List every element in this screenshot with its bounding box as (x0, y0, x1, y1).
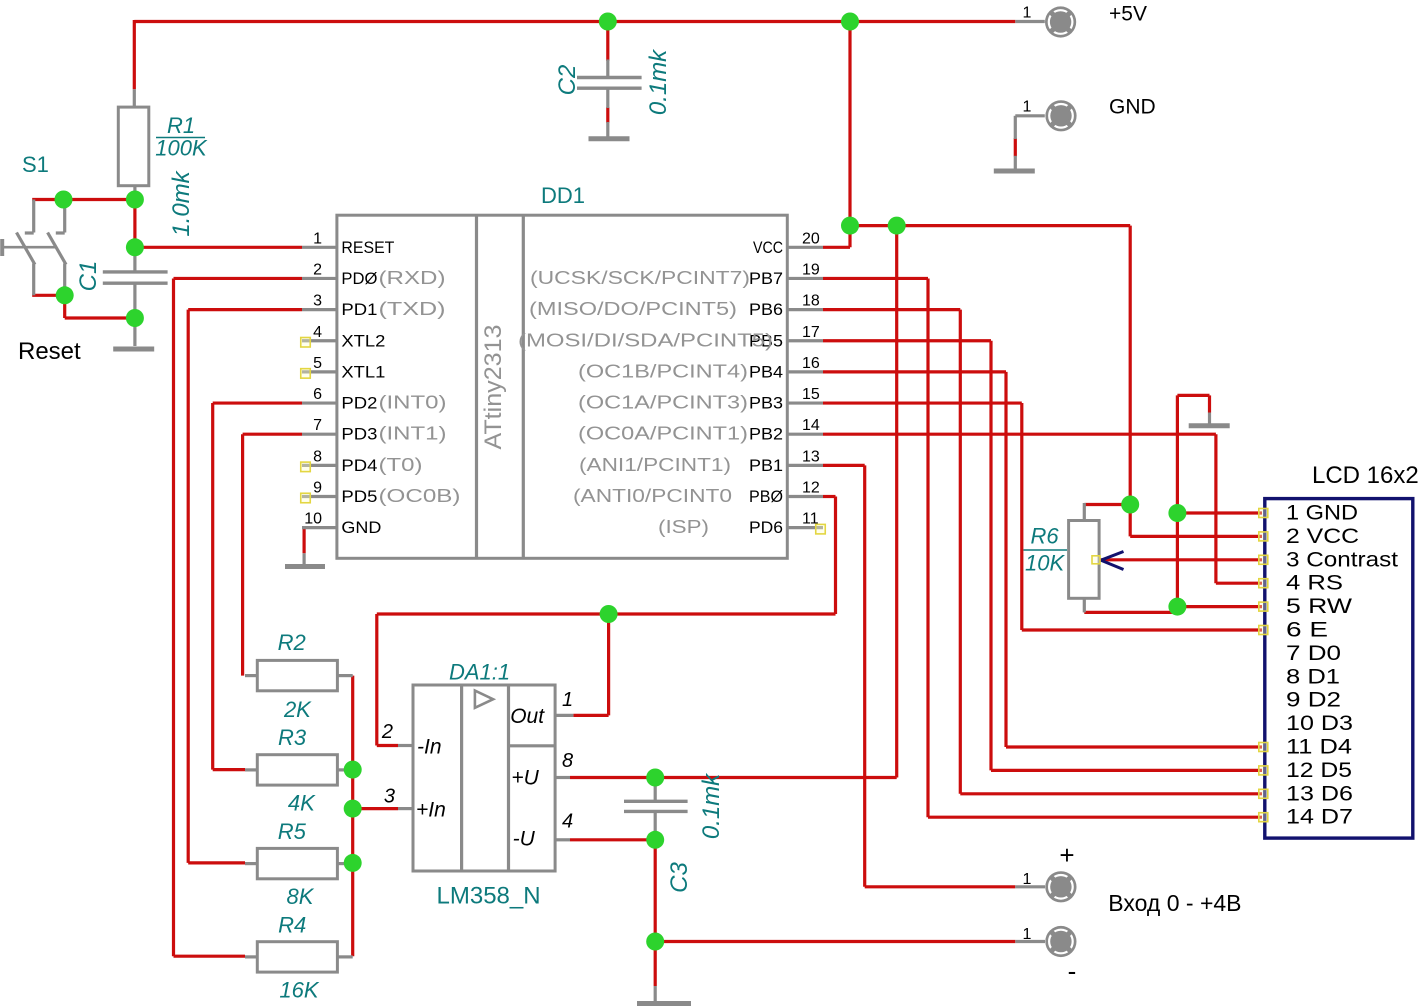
svg-text:2: 2 (313, 261, 322, 278)
svg-text:6: 6 (313, 386, 322, 403)
svg-text:-In: -In (417, 736, 442, 759)
svg-text:12 D5: 12 D5 (1286, 759, 1352, 782)
svg-text:10 D3: 10 D3 (1286, 712, 1353, 735)
svg-text:S1: S1 (22, 152, 49, 177)
svg-text:(TXD): (TXD) (379, 299, 446, 319)
svg-text:(MOSI/DI/SDA/PCINT5): (MOSI/DI/SDA/PCINT5) (518, 330, 773, 350)
svg-text:PB6: PB6 (749, 300, 783, 319)
svg-text:-U: -U (513, 828, 536, 851)
svg-text:13 D6: 13 D6 (1286, 782, 1353, 805)
svg-text:8: 8 (313, 448, 322, 465)
svg-text:PB1: PB1 (749, 456, 783, 475)
svg-text:GND: GND (341, 518, 381, 537)
svg-text:19: 19 (802, 261, 820, 278)
svg-text:0.1mk: 0.1mk (645, 48, 672, 115)
svg-text:PB3: PB3 (749, 394, 783, 413)
svg-text:XTL2: XTL2 (341, 331, 385, 350)
svg-text:PD2: PD2 (341, 394, 377, 413)
svg-text:C2: C2 (554, 65, 581, 96)
svg-text:1: 1 (1023, 99, 1032, 116)
svg-text:+In: +In (416, 799, 446, 822)
svg-text:7: 7 (313, 417, 322, 434)
svg-text:R4: R4 (278, 913, 306, 938)
svg-text:4: 4 (562, 811, 573, 833)
svg-text:PB4: PB4 (749, 362, 783, 381)
svg-text:PBØ: PBØ (749, 487, 783, 506)
svg-text:1.0mk: 1.0mk (168, 169, 195, 236)
svg-text:1: 1 (1023, 5, 1032, 22)
svg-text:(OC1B/PCINT4): (OC1B/PCINT4) (578, 361, 748, 381)
svg-text:+U: +U (511, 767, 539, 790)
svg-text:2K: 2K (283, 697, 312, 722)
svg-text:DD1: DD1 (541, 183, 585, 208)
svg-text:+5V: +5V (1109, 3, 1147, 26)
svg-text:18: 18 (802, 293, 820, 310)
svg-text:(INT0): (INT0) (379, 393, 447, 413)
svg-text:PB7: PB7 (749, 269, 783, 288)
svg-text:R3: R3 (278, 725, 307, 750)
svg-text:1: 1 (1023, 926, 1032, 943)
svg-text:R5: R5 (278, 819, 307, 844)
svg-text:9: 9 (313, 480, 322, 497)
svg-text:17: 17 (802, 324, 820, 341)
svg-text:(INT1): (INT1) (379, 424, 447, 444)
svg-text:2: 2 (381, 721, 393, 743)
svg-text:16K: 16K (279, 978, 319, 1003)
svg-text:3: 3 (313, 293, 322, 310)
svg-text:1: 1 (1023, 871, 1032, 888)
svg-text:7 D0: 7 D0 (1286, 642, 1341, 665)
svg-text:VCC: VCC (753, 238, 783, 257)
svg-text:12: 12 (802, 480, 820, 497)
svg-text:R1: R1 (167, 113, 195, 138)
svg-text:4K: 4K (288, 791, 316, 816)
svg-text:14 D7: 14 D7 (1286, 806, 1353, 829)
svg-text:(RXD): (RXD) (379, 268, 446, 288)
svg-text:10K: 10K (1025, 551, 1065, 576)
svg-text:0.1mk: 0.1mk (698, 772, 725, 839)
svg-text:LM358_N: LM358_N (437, 883, 541, 910)
svg-text:2 VCC: 2 VCC (1286, 525, 1359, 548)
svg-text:(ANTI0/PCINT0: (ANTI0/PCINT0 (573, 486, 732, 506)
svg-text:6 E: 6 E (1286, 619, 1328, 642)
svg-text:4 RS: 4 RS (1286, 572, 1343, 595)
svg-text:ATtiny2313: ATtiny2313 (480, 325, 507, 450)
svg-text:8: 8 (562, 750, 573, 772)
svg-text:PD4: PD4 (341, 456, 377, 475)
svg-text:8K: 8K (287, 884, 315, 909)
svg-text:RESET: RESET (341, 238, 394, 257)
svg-text:C1: C1 (75, 261, 102, 292)
svg-text:PB2: PB2 (749, 425, 783, 444)
svg-text:(OC0A/PCINT1): (OC0A/PCINT1) (578, 424, 748, 444)
svg-text:8 D1: 8 D1 (1286, 665, 1340, 688)
svg-text:10: 10 (304, 511, 322, 528)
svg-text:20: 20 (802, 230, 820, 247)
svg-text:1: 1 (562, 689, 573, 711)
svg-text:C3: C3 (666, 862, 693, 893)
svg-text:Вход 0 - +4В: Вход 0 - +4В (1108, 890, 1241, 916)
svg-text:LCD 16x2: LCD 16x2 (1312, 462, 1419, 489)
svg-text:15: 15 (802, 386, 820, 403)
svg-text:3 Contrast: 3 Contrast (1286, 548, 1398, 571)
svg-text:-: - (1068, 956, 1077, 986)
svg-text:Reset: Reset (18, 338, 81, 365)
svg-text:R2: R2 (278, 630, 306, 655)
svg-text:+: + (1059, 840, 1074, 870)
svg-text:1: 1 (313, 230, 322, 247)
svg-text:(ANI1/PCINT1): (ANI1/PCINT1) (579, 455, 731, 475)
svg-text:GND: GND (1109, 96, 1156, 119)
svg-text:XTL1: XTL1 (341, 362, 385, 381)
svg-text:11: 11 (802, 511, 819, 528)
svg-text:(T0): (T0) (379, 455, 423, 475)
svg-text:PD3: PD3 (341, 425, 377, 444)
svg-text:3: 3 (384, 786, 395, 808)
svg-text:9 D2: 9 D2 (1286, 689, 1341, 712)
svg-text:(OC1A/PCINT3): (OC1A/PCINT3) (578, 393, 748, 413)
svg-text:100K: 100K (155, 136, 208, 161)
svg-text:5: 5 (313, 355, 322, 372)
svg-text:(ISP): (ISP) (658, 517, 709, 537)
svg-text:14: 14 (802, 417, 820, 434)
svg-text:Out: Out (510, 705, 545, 728)
svg-text:R6: R6 (1031, 524, 1060, 549)
svg-text:DA1:1: DA1:1 (449, 660, 510, 685)
svg-text:1 GND: 1 GND (1286, 502, 1358, 525)
svg-text:PD6: PD6 (749, 518, 783, 537)
svg-text:11 D4: 11 D4 (1286, 736, 1352, 759)
svg-text:PDØ: PDØ (341, 269, 377, 288)
svg-text:PD5: PD5 (341, 487, 377, 506)
svg-text:4: 4 (313, 324, 322, 341)
svg-text:13: 13 (802, 448, 820, 465)
svg-text:(MISO/DO/PCINT5): (MISO/DO/PCINT5) (529, 299, 737, 319)
svg-text:(UCSK/SCK/PCINT7): (UCSK/SCK/PCINT7) (530, 268, 750, 288)
svg-text:(OC0B): (OC0B) (379, 486, 461, 506)
svg-text:5 RW: 5 RW (1286, 595, 1352, 618)
svg-text:16: 16 (802, 355, 820, 372)
svg-text:PD1: PD1 (341, 300, 377, 319)
